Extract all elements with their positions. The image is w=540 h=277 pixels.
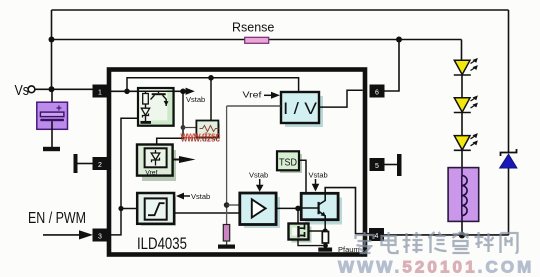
- inductor L1: [448, 168, 479, 222]
- wire bottom output rail: [383, 234, 509, 236]
- wire EN/PWM input arrow: [43, 230, 93, 239]
- node junction Vs internal: [124, 89, 130, 95]
- wire pin1 to regulator: [108, 90, 140, 92]
- node junction output: [459, 232, 465, 238]
- wire drive into clamp: [297, 208, 299, 223]
- svg-text:EN / PWM: EN / PWM: [28, 210, 86, 227]
- pin 1: [93, 85, 108, 98]
- node junction emitter sense: [323, 228, 328, 233]
- pin 2: [93, 157, 108, 170]
- svg-text:Pfaum: Pfaum: [338, 245, 360, 254]
- bias resistor block: [196, 121, 220, 140]
- terminal Vs: [28, 86, 35, 93]
- wire Vref to comparator input: [227, 204, 241, 206]
- watermark chinese characters row: [356, 232, 518, 253]
- wire Vref feed into I/V: [227, 105, 281, 107]
- LED D1: [454, 58, 479, 98]
- pin 6: [370, 85, 385, 98]
- node junction ground link: [323, 243, 328, 248]
- block I/V converter: [281, 92, 323, 127]
- wire TSD to output stage: [299, 160, 306, 193]
- LED D3: [454, 133, 479, 167]
- node junction output stage drive: [295, 206, 301, 212]
- wire comparator output: [276, 207, 301, 209]
- wire EN column: [108, 118, 139, 235]
- svg-text:TSD: TSD: [279, 157, 297, 169]
- annotation arrow Vstab at schmitt: [176, 193, 190, 200]
- diode D4 schottky freewheel: [500, 149, 517, 168]
- svg-text:3: 3: [98, 234, 102, 241]
- svg-text:Vref: Vref: [145, 170, 157, 177]
- svg-text:2: 2: [98, 162, 102, 169]
- wire schmitt input: [121, 208, 138, 210]
- annotation arrow Vref out: [173, 156, 196, 163]
- wire right rail upper (diode cathode to top rail): [508, 10, 510, 152]
- wire schmitt output to comparator: [174, 212, 240, 214]
- svg-text:Rsense: Rsense: [232, 21, 274, 35]
- wire Rref to ground: [226, 241, 228, 245]
- wire collector to pin 4: [325, 188, 369, 234]
- svg-text:Vs: Vs: [15, 82, 30, 99]
- block TSD: [277, 151, 302, 173]
- node junction bias link: [181, 125, 186, 130]
- wire Vs column (top rail down to Vs node): [51, 10, 53, 89]
- svg-text:Vstab: Vstab: [191, 192, 210, 201]
- svg-text:5: 5: [375, 163, 379, 170]
- ground below capacitor: [43, 147, 60, 151]
- wire bias resistor drop: [210, 78, 212, 121]
- svg-text:6: 6: [375, 90, 379, 97]
- wire LED chain feed: [461, 40, 463, 61]
- node junction Vref/comparator: [224, 202, 230, 208]
- wire Vstab column to Vref block: [157, 91, 183, 145]
- ground output stage: [318, 248, 332, 252]
- svg-text:1: 1: [98, 90, 102, 97]
- svg-text:Vstab: Vstab: [309, 171, 328, 180]
- reference block Vref: [137, 145, 176, 182]
- node junction Rsense tap: [49, 37, 55, 43]
- wire bias link: [183, 127, 197, 129]
- output transistor block: [301, 193, 342, 224]
- wire Vs to pin 1: [35, 88, 93, 90]
- capacitor C1 input electrolytic: [37, 89, 68, 147]
- resistor Rsense: [245, 37, 269, 43]
- svg-text:WWW.520101.COM: WWW.520101.COM: [338, 258, 534, 277]
- schmitt trigger block: [137, 193, 176, 226]
- comparator block: [240, 193, 280, 228]
- svg-text:4: 4: [375, 233, 379, 240]
- wire I/V output to pin 6: [319, 90, 363, 107]
- wire resistor to ground: [324, 243, 326, 248]
- wire right rail lower (diode anode to bottom node): [508, 168, 510, 235]
- resistor Rref divider: [223, 225, 229, 242]
- wire emitter to sense resistor: [324, 220, 326, 232]
- svg-text:Vstab: Vstab: [249, 171, 268, 180]
- node junction Vstab: [180, 89, 186, 95]
- IC ILD4035 body outline: [109, 70, 365, 255]
- wire internal Vs top rail: [127, 78, 299, 93]
- wire top supply rail: [52, 9, 509, 11]
- wire inductor to output node: [461, 221, 463, 235]
- annotation arrow Vstab into output stage: [312, 179, 320, 192]
- LED D2: [454, 95, 479, 135]
- svg-text:ILD4035: ILD4035: [137, 235, 187, 253]
- svg-text:Vstab: Vstab: [186, 95, 205, 104]
- annotation arrow Vstab into comparator: [256, 179, 264, 192]
- svg-text:www.dzsc: www.dzsc: [180, 135, 221, 144]
- pin 4: [369, 228, 384, 241]
- ground tie bar at pin 2: [74, 154, 93, 173]
- node junction bias resistor tap: [208, 75, 214, 81]
- svg-text:I / V: I / V: [283, 99, 318, 118]
- svg-text:Vref: Vref: [243, 90, 263, 100]
- wire Vstab output: [174, 90, 187, 92]
- pin 3: [93, 229, 108, 242]
- wire clamp to ground: [298, 240, 326, 246]
- wire Rsense rail: [52, 39, 462, 41]
- pin 5: [370, 158, 385, 171]
- wire drop to pin 6: [384, 40, 399, 92]
- annotation arrow Vref into I/V: [264, 92, 280, 99]
- resistor sense internal: [322, 232, 328, 244]
- voltage regulator block: [138, 88, 175, 127]
- node junction Vs/cap: [49, 86, 55, 92]
- node junction schmitt input: [118, 206, 123, 211]
- clamp transistor block: [289, 224, 312, 243]
- ground tie bar at pin 5: [385, 154, 402, 176]
- ground below Rref: [218, 245, 235, 249]
- wire clamp tap: [309, 230, 326, 232]
- annotation arrow Vstab out: [186, 88, 195, 95]
- wire Vref column: [226, 106, 228, 225]
- node junction pin6 drop: [396, 37, 402, 43]
